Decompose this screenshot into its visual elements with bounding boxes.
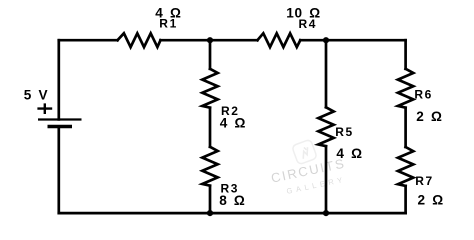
wire R5 to bottom node <box>325 146 328 213</box>
svg-text:8 Ω: 8 Ω <box>219 193 245 208</box>
resistor R4 <box>257 33 300 47</box>
svg-text:4 Ω: 4 Ω <box>336 146 362 161</box>
svg-text:2 Ω: 2 Ω <box>418 192 444 207</box>
node A junction dot <box>207 37 213 43</box>
node B junction dot <box>323 37 329 43</box>
battery V1 plate long <box>38 118 82 120</box>
wire R3 to bottom node <box>209 186 212 213</box>
wire right vertical lower <box>404 186 407 213</box>
svg-text:R1: R1 <box>159 17 178 31</box>
svg-text:5 V: 5 V <box>24 88 48 103</box>
node D junction dot <box>323 210 329 216</box>
resistor R7 <box>398 147 413 186</box>
wire left vertical upper <box>57 40 60 119</box>
wire top-left corner to R1 <box>59 39 118 42</box>
wire node A down to R2 <box>209 40 212 69</box>
watermark logo <box>292 139 318 165</box>
resistor R3 <box>202 147 217 186</box>
svg-text:R4: R4 <box>299 17 318 31</box>
wire right vertical middle <box>404 108 407 147</box>
svg-text:2 Ω: 2 Ω <box>416 109 442 124</box>
resistor R5 <box>318 107 333 146</box>
svg-text:R5: R5 <box>335 125 354 139</box>
wire right vertical upper <box>404 40 407 69</box>
wire bottom <box>59 212 406 215</box>
wire R1 to node A <box>161 39 258 42</box>
wire node B down to R5 <box>325 40 328 107</box>
svg-text:4 Ω: 4 Ω <box>220 116 246 131</box>
resistor R6 <box>398 69 413 108</box>
node C junction dot <box>207 210 213 216</box>
battery V1 plate short <box>48 125 73 129</box>
resistor R1 <box>118 33 161 47</box>
battery plus sign <box>37 103 52 114</box>
wire R2 to R3 <box>209 108 212 147</box>
wire left vertical lower <box>57 127 60 214</box>
svg-text:R6: R6 <box>414 88 433 102</box>
wire R4 to top-right corner <box>300 39 405 42</box>
svg-text:R7: R7 <box>415 174 434 188</box>
resistor R2 <box>202 69 217 108</box>
